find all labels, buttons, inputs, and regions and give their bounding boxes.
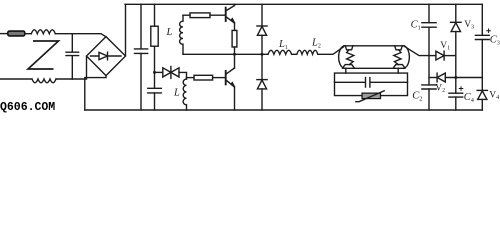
filament right mount bottom <box>393 65 405 69</box>
wire rail2 to C4 <box>455 78 457 94</box>
svg-text:C4: C4 <box>464 92 474 104</box>
wire rail3 upper <box>481 4 483 35</box>
fuse FU <box>8 31 25 36</box>
filament right <box>394 50 401 65</box>
capacitor mid bus <box>135 49 148 54</box>
wire AC top input <box>1 33 8 35</box>
node trigger junction <box>153 71 156 74</box>
svg-text:C3: C3 <box>490 34 500 46</box>
resistor base upper <box>190 13 210 18</box>
capacitor X across line <box>66 34 79 79</box>
wire L2 to lamp <box>318 47 344 55</box>
wire midpoint <box>183 53 268 55</box>
wire lamp right pin to node <box>404 46 430 56</box>
diac trigger diode <box>163 68 171 77</box>
wire VT1 collector <box>234 4 236 5</box>
wire diac right jog <box>179 72 187 79</box>
diode V1 <box>436 51 444 60</box>
wire rail3 middle <box>481 40 483 91</box>
wire V1 to rail2 <box>444 55 456 57</box>
wire rail capacitor branch lower <box>140 53 142 110</box>
filament left mount bottom <box>343 65 355 69</box>
wire diode rail middle <box>261 35 263 79</box>
wire C4 to bottom bus <box>455 97 457 110</box>
wire VT1 emitter <box>234 23 236 30</box>
svg-text:L: L <box>166 27 173 38</box>
wire rail C1 C2 lower <box>428 89 430 110</box>
transistor VT2 <box>225 71 227 84</box>
diode V4 <box>477 89 487 91</box>
wire diode rail upper <box>261 4 263 26</box>
inductor L1 <box>268 50 292 54</box>
diode VD2 <box>257 79 267 81</box>
wire coil top to resistor <box>183 14 190 16</box>
wire coil to bridge left corner <box>56 56 87 79</box>
plus sign C3 <box>487 29 491 33</box>
svg-text:C2: C2 <box>412 91 422 103</box>
starter box <box>335 73 408 96</box>
wire emitter resistor to midpoint <box>234 47 236 54</box>
wire resistor branch upper <box>154 4 156 26</box>
capacitor starting <box>335 78 408 88</box>
node B junction <box>454 76 457 79</box>
resistor R charge <box>151 26 158 46</box>
wire rail3 lower <box>481 99 483 110</box>
transistor VT1 <box>225 8 227 21</box>
wire resistor to base VT2 <box>213 77 226 79</box>
wire lamp right bottom pin <box>397 68 399 73</box>
capacitor C1 <box>422 23 436 28</box>
wire coil node to resistor <box>187 77 195 79</box>
svg-text:L: L <box>173 88 180 99</box>
wire rail2 upper <box>455 4 457 22</box>
node midpoint VT <box>233 53 236 56</box>
wire node A to V1 <box>429 55 436 57</box>
wire coil to bridge top corner <box>55 34 106 37</box>
capacitor C3 <box>475 35 489 39</box>
wire diac left <box>155 71 163 73</box>
inductor base winding lower <box>183 79 186 110</box>
svg-text:Q606.COM: Q606.COM <box>0 101 55 114</box>
wire AC bottom input <box>1 78 33 80</box>
lamp tube outline <box>344 46 404 69</box>
wire trigger cap to bottom bus <box>154 93 156 110</box>
capacitor C2 <box>422 85 436 89</box>
svg-text:V4: V4 <box>489 90 499 101</box>
node midpoint diode rail <box>261 53 264 56</box>
wire rail C1 C2 upper <box>428 4 430 22</box>
wire bridge minus route <box>85 76 106 110</box>
wire diode rail lower <box>261 89 263 110</box>
wire fuse to coil <box>25 33 32 35</box>
wire VT2 collector <box>234 54 236 68</box>
inductor filter top coil <box>31 30 55 34</box>
inductor base winding upper <box>180 15 183 54</box>
wire L1 to L2 <box>292 53 297 55</box>
inductor filter bottom coil <box>32 79 56 83</box>
svg-text:V1: V1 <box>440 41 450 52</box>
varistor thermal <box>362 93 381 99</box>
wire resistor to base VT1 <box>210 14 226 16</box>
filament left <box>347 50 354 65</box>
resistor base lower <box>194 75 213 80</box>
svg-text:V2: V2 <box>435 83 445 94</box>
svg-text:L1: L1 <box>278 39 288 51</box>
Z filter symbol <box>28 41 59 69</box>
svg-text:C1: C1 <box>411 19 421 31</box>
filament left mount top <box>345 46 353 50</box>
wire VT2 emitter <box>234 87 236 110</box>
wire bridge plus riser <box>125 4 127 55</box>
plus sign C4 <box>459 87 463 91</box>
diode V3 <box>451 21 461 23</box>
capacitor trigger <box>148 88 162 93</box>
wire bottom DC bus <box>85 109 483 111</box>
diode VD1 <box>257 25 267 27</box>
inductor L2 <box>297 50 318 54</box>
filament right mount top <box>395 46 403 50</box>
wire rail2 middle <box>455 32 457 78</box>
capacitor C4 <box>449 93 463 97</box>
svg-text:L2: L2 <box>311 37 321 49</box>
wire top DC bus <box>125 3 482 5</box>
wire rail capacitor branch upper <box>140 4 142 49</box>
wire lamp left bottom pin <box>345 68 347 73</box>
wire V2 to rail3 <box>445 77 482 79</box>
bridge rectifier diamond <box>87 37 126 76</box>
wire resistor branch middle <box>154 46 156 88</box>
resistor emitter VT1 <box>232 30 237 47</box>
diode V2 <box>436 73 438 82</box>
bridge internal diode <box>91 52 122 60</box>
svg-text:V3: V3 <box>464 20 474 31</box>
wire rail C1 C2 middle <box>428 27 430 85</box>
wire node to V2 <box>429 77 437 79</box>
